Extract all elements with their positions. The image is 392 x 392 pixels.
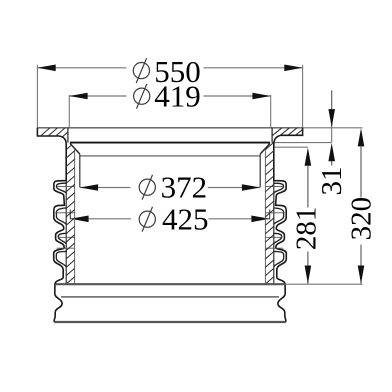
dimension line D550 xyxy=(37,67,126,69)
fold line right y212.8 xyxy=(265,212,284,214)
hatching right wall xyxy=(264,142,274,285)
fold line right y186.6 xyxy=(265,186,282,188)
extension line right D550 xyxy=(302,65,304,128)
fold line right y248.2 xyxy=(265,247,283,249)
bellows fold inner lines left xyxy=(57,183,67,193)
extension line left D550 xyxy=(36,65,38,128)
dimension 31 line xyxy=(331,90,333,127)
inner ledge edge xyxy=(70,142,270,144)
flange right cut xyxy=(274,128,303,144)
flange left cut xyxy=(37,128,66,144)
notch edge right D425 xyxy=(269,210,271,220)
extension line 281 top xyxy=(274,146,308,148)
svg-text:372: 372 xyxy=(161,170,208,205)
svg-text:320: 320 xyxy=(346,197,378,241)
extension line left D419 xyxy=(68,95,70,128)
funnel cone right xyxy=(260,143,270,154)
label D425 xyxy=(139,202,208,237)
fold line left y186.6 xyxy=(58,186,75,188)
bore wall right xyxy=(259,154,261,187)
notch edge left D425 xyxy=(69,210,71,220)
dimension 281 line xyxy=(305,148,312,166)
bellows outer contour right xyxy=(274,144,287,323)
bore wall left xyxy=(79,154,81,187)
label D419 xyxy=(134,79,201,114)
label D550 xyxy=(133,54,201,89)
hatching flange left xyxy=(40,127,81,136)
bottom groove edge xyxy=(61,296,279,298)
label D372 xyxy=(139,170,207,205)
fold line right y237.3 xyxy=(265,236,281,238)
svg-text:425: 425 xyxy=(162,202,209,237)
wall outer surface line right xyxy=(273,144,275,284)
svg-text:31: 31 xyxy=(316,167,348,196)
dimension line D372 xyxy=(80,187,131,189)
dimension line D425 xyxy=(70,218,131,220)
extension line 31 bottom xyxy=(272,142,332,144)
bottom shoulder edge xyxy=(56,283,286,285)
extension line flange top right xyxy=(303,127,363,129)
bottom edge xyxy=(54,321,286,323)
extension line right D419 xyxy=(270,95,272,128)
hatching left wall xyxy=(65,142,75,285)
hatching flange right xyxy=(272,127,313,136)
funnel cone left xyxy=(70,143,80,154)
dimension line D419 xyxy=(69,95,126,97)
fold line left y237.3 xyxy=(59,236,75,238)
dimension 320 line xyxy=(358,128,365,146)
svg-text:419: 419 xyxy=(154,79,201,114)
bellows fold inner lines right xyxy=(273,183,283,193)
wall inner edge right xyxy=(264,149,266,284)
svg-text:281: 281 xyxy=(290,207,322,251)
bellows outer contour left xyxy=(54,144,66,323)
wall outer surface line left xyxy=(65,144,67,284)
funnel bottom ledge xyxy=(80,155,260,157)
fold line left y212.8 xyxy=(55,212,74,214)
flange top edge xyxy=(37,127,302,129)
extension line bottom right xyxy=(286,283,363,285)
wall inner edge left xyxy=(74,149,76,284)
fold line left y248.2 xyxy=(57,247,75,249)
